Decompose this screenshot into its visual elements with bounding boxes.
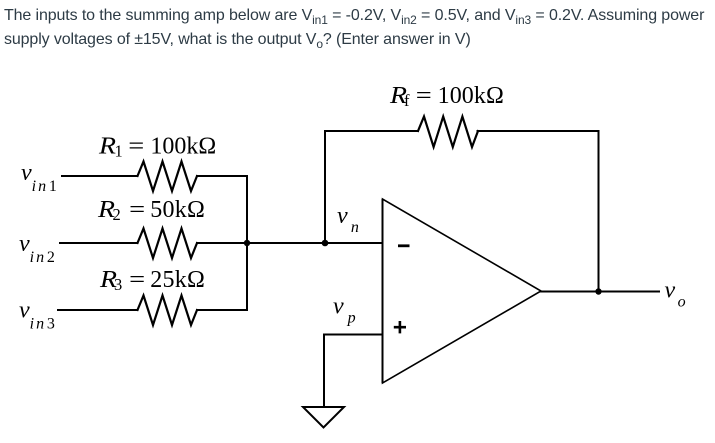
wire bus to inverting input [247,242,383,244]
svg-text:vin1: vin1 [21,160,57,195]
ground [303,407,344,428]
wire R2 out [197,242,247,244]
resistor R1 [138,162,198,192]
svg-text:vin3: vin3 [19,298,55,333]
wire output [541,291,659,293]
wire vin2 lead [60,242,138,244]
svg-text:R2=50kΩ: R2=50kΩ [97,197,205,224]
resistor R3 [138,296,198,326]
wire vin3 lead [58,309,138,311]
svg-text:R3=25kΩ: R3=25kΩ [99,267,205,294]
op-amp minus sign [398,244,410,247]
svg-text:Rf=100kΩ: Rf=100kΩ [389,83,504,110]
wire summing bus [246,176,248,310]
svg-text:R1=100kΩ: R1=100kΩ [98,134,216,161]
wire R1 out [197,175,247,177]
svg-text:vo: vo [665,278,686,311]
svg-text:vp: vp [333,294,356,327]
svg-text:vin2: vin2 [19,231,55,266]
op-amp plus sign [394,321,406,333]
node junction dot bus [244,240,250,246]
wire feedback top left [325,130,418,132]
wire vin1 lead [62,175,138,177]
wire feedback left vertical [324,131,326,243]
wire feedback top right [478,130,599,132]
svg-text:vn: vn [337,203,359,236]
wire R3 out [197,309,247,311]
resistor Rf [418,117,478,148]
question text [4,4,715,52]
op-amp U1 [383,199,542,383]
resistor R2 [138,229,198,259]
node junction dot vn [322,240,329,247]
wire feedback right vertical [598,131,600,292]
node junction dot output [595,288,601,294]
wire non-inverting input [324,335,383,408]
